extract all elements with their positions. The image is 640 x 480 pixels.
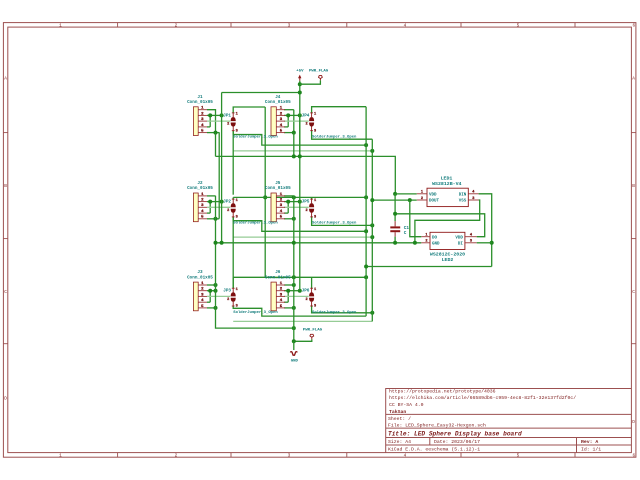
svg-text:3: 3 [236,305,238,309]
svg-text:SolderJumper_3_Open: SolderJumper_3_Open [233,221,278,226]
svg-text:File: LED_Sphere_Easy32-Hexgon: File: LED_Sphere_Easy32-Hexgon.sch [388,422,486,428]
svg-text:Id: 1/1: Id: 1/1 [581,447,601,453]
svg-text:1: 1 [236,199,238,203]
svg-text:Conn_01x05: Conn_01x05 [265,100,291,105]
svg-text:Conn_01x05: Conn_01x05 [265,275,291,280]
svg-text:VDD: VDD [455,236,463,240]
svg-text:https://protopedia.net/prototy: https://protopedia.net/prototype/4036 [389,389,496,395]
svg-text:VDD: VDD [429,194,437,198]
svg-text:Rev: A: Rev: A [581,439,598,445]
svg-text:1: 1 [236,288,238,292]
svg-text:4: 4 [404,23,407,28]
svg-text:PWR_FLAG: PWR_FLAG [303,328,323,332]
svg-text:1: 1 [236,113,238,117]
svg-text:Conn_01x05: Conn_01x05 [187,100,213,105]
svg-text:WS2812B-V4: WS2812B-V4 [432,181,461,187]
svg-text:TakSan: TakSan [389,409,406,415]
svg-text:JP1: JP1 [223,113,231,118]
svg-text:2: 2 [227,209,229,213]
svg-text:SolderJumper_3_Open: SolderJumper_3_Open [312,310,357,315]
svg-text:JP3: JP3 [223,289,231,294]
svg-text:Conn_01x05: Conn_01x05 [187,275,213,280]
svg-text:VSS: VSS [459,200,467,204]
svg-text:2: 2 [306,209,308,213]
svg-text:1: 1 [314,288,316,292]
svg-text:SolderJumper_3_Open: SolderJumper_3_Open [312,135,357,140]
svg-text:3: 3 [288,453,291,458]
svg-text:1: 1 [59,23,62,28]
svg-text:GND: GND [291,360,299,364]
svg-text:JP6: JP6 [302,289,310,294]
svg-text:SolderJumper_3_Open: SolderJumper_3_Open [312,221,357,226]
svg-text:3: 3 [288,23,291,28]
svg-text:4: 4 [404,453,407,458]
svg-text:3: 3 [314,305,316,309]
svg-text:5: 5 [517,23,520,28]
svg-text:2: 2 [421,197,423,201]
svg-text:2: 2 [306,298,308,302]
svg-text:1: 1 [425,234,427,238]
svg-text:JP2: JP2 [223,200,231,205]
svg-text:C: C [632,290,635,295]
svg-text:1: 1 [421,191,423,195]
svg-text:B: B [4,184,7,189]
svg-text:2: 2 [227,298,229,302]
svg-text:3: 3 [470,240,472,244]
svg-text:5: 5 [517,453,520,458]
svg-text:SolderJumper_3_Open: SolderJumper_3_Open [233,135,278,140]
svg-text:3: 3 [236,129,238,133]
svg-text:Size: A4: Size: A4 [388,439,411,445]
svg-text:JP5: JP5 [302,200,310,205]
svg-text:1: 1 [314,199,316,203]
svg-text:GND: GND [432,243,440,247]
svg-text:3: 3 [314,129,316,133]
svg-text:A: A [4,77,7,82]
svg-text:1: 1 [59,453,62,458]
svg-text:A: A [632,77,635,82]
svg-text:2: 2 [306,123,308,127]
svg-text:CC BY-SA 4.0: CC BY-SA 4.0 [389,402,424,408]
svg-text:Conn_01x05: Conn_01x05 [187,186,213,191]
svg-text:6: 6 [632,23,635,28]
svg-text:Title: LED Sphere Display base: Title: LED Sphere Display base board [388,430,522,437]
svg-text:B: B [632,184,635,189]
svg-text:D: D [4,397,7,402]
svg-text:LED1: LED1 [441,176,453,182]
svg-text:WS2812C-2020: WS2812C-2020 [430,251,465,257]
svg-text:https://elchika.com/article/66: https://elchika.com/article/66589db6-c95… [389,395,576,401]
svg-text:SolderJumper_3_Open: SolderJumper_3_Open [233,310,278,315]
svg-text:JP4: JP4 [302,113,310,118]
svg-text:6: 6 [632,453,635,458]
svg-text:C: C [4,290,7,295]
svg-text:2: 2 [175,23,178,28]
svg-text:DOUT: DOUT [429,200,440,204]
svg-text:DO: DO [432,236,438,240]
svg-text:C: C [404,231,407,236]
svg-text:PWR_FLAG: PWR_FLAG [309,70,329,74]
svg-text:2: 2 [175,453,178,458]
svg-text:DIN: DIN [459,194,467,198]
svg-text:Date: 2023/06/17: Date: 2023/06/17 [434,439,480,445]
svg-text:2: 2 [227,123,229,127]
svg-text:D: D [632,420,635,425]
svg-text:2: 2 [425,240,427,244]
svg-text:Sheet: /: Sheet: / [388,416,411,422]
svg-text:3: 3 [236,216,238,220]
svg-text:1: 1 [314,113,316,117]
svg-text:+5V: +5V [296,70,304,74]
svg-text:DI: DI [458,243,464,247]
svg-text:LED2: LED2 [442,257,454,263]
svg-text:Conn_01x05: Conn_01x05 [265,186,291,191]
svg-text:3: 3 [314,216,316,220]
svg-text:KiCad E.D.A. eeschema (5.1.12: KiCad E.D.A. eeschema (5.1.12)-1 [388,447,480,453]
svg-text:3: 3 [472,197,474,201]
